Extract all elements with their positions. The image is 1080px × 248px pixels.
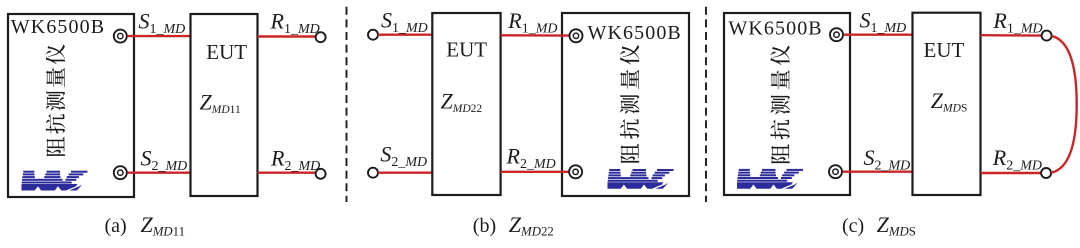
panel separator dashed line 1: [346, 7, 348, 202]
vertical label 阻抗测量仪 (a): [46, 44, 65, 156]
terminal S2 (b): [368, 168, 378, 178]
terminal R1 (c): [1042, 31, 1052, 41]
Wayne Kerr logo (c): [737, 169, 803, 189]
svg-text:(b): (b): [473, 215, 496, 237]
terminal S2 (c): [829, 165, 842, 178]
panel separator dashed line 2: [705, 7, 707, 202]
terminal S1 (c): [830, 28, 843, 41]
wire R1_MD (a): [258, 35, 316, 37]
instrument box WK6500B (b): [562, 13, 689, 196]
instrument box WK6500B (a): [8, 14, 134, 197]
terminal S2 (a): [114, 166, 127, 179]
vertical label 阻抗测量仪 (c): [770, 45, 789, 163]
svg-text:WK6500B: WK6500B: [588, 22, 682, 44]
wire S2_MD (c): [843, 170, 913, 172]
terminal S1 (a): [114, 30, 127, 43]
wire R2_MD (a): [258, 171, 316, 173]
terminal R1 (a): [316, 32, 326, 42]
terminal R2 (c): [1041, 168, 1051, 178]
svg-text:WK6500B: WK6500B: [728, 18, 822, 40]
wire R1_MD (b): [501, 34, 572, 37]
EUT box (b): [432, 13, 500, 195]
vertical label 阻抗测量仪 (b): [620, 45, 639, 163]
EUT box (c): [913, 13, 981, 195]
instrument box WK6500B (c): [724, 13, 850, 195]
svg-text:EUT: EUT: [446, 37, 487, 61]
terminal R2 (a): [316, 169, 326, 179]
wire R2_MD (b): [501, 171, 572, 173]
terminal R2 (b): [569, 165, 582, 178]
wire R2_MD (c): [981, 172, 1042, 174]
wire S1_MD (c): [844, 34, 913, 36]
Wayne Kerr logo (b): [608, 169, 674, 189]
svg-text:EUT: EUT: [206, 40, 247, 64]
wire S2_MD (b): [378, 171, 433, 173]
terminal R1 (b): [570, 29, 583, 42]
shorting wire R1 to R2 (c): [1051, 36, 1077, 173]
EUT box (a): [191, 14, 258, 196]
wire S1_MD (b): [378, 34, 433, 36]
terminal S1 (b): [368, 30, 378, 40]
wire S2_MD (a): [128, 171, 191, 173]
Wayne Kerr logo (a): [22, 171, 88, 191]
wire R1_MD (c): [981, 34, 1042, 37]
wire S1_MD (a): [128, 35, 191, 37]
svg-text:(c): (c): [842, 215, 864, 237]
svg-text:WK6500B: WK6500B: [11, 16, 105, 38]
svg-text:(a): (a): [105, 215, 127, 237]
svg-text:EUT: EUT: [924, 38, 965, 62]
